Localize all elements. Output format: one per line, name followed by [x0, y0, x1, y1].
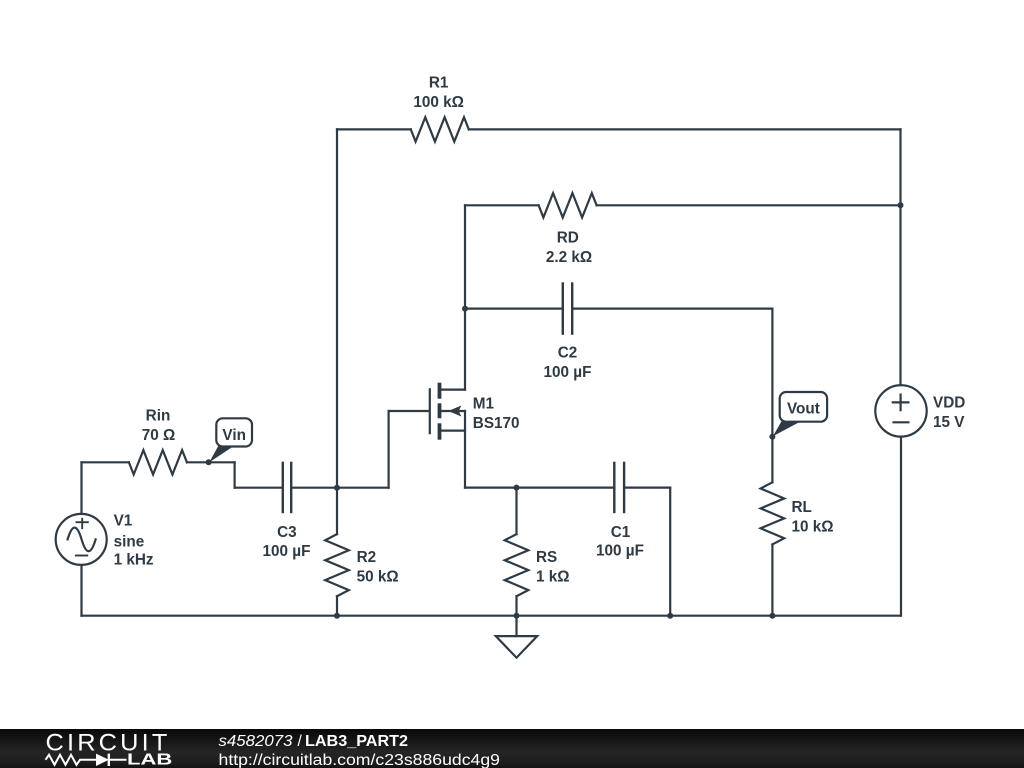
- svg-text:VDD: VDD: [933, 395, 965, 412]
- VDD plus sign: [892, 394, 910, 412]
- svg-text:1 kHz: 1 kHz: [114, 552, 154, 569]
- svg-text:RS: RS: [536, 549, 557, 566]
- wire C1 right lead: [625, 487, 670, 489]
- svg-text:15 V: 15 V: [933, 414, 965, 431]
- wire RD node to VDD plus terminal: [899, 205, 901, 385]
- svg-text:100 µF: 100 µF: [263, 543, 311, 560]
- svg-text:R1: R1: [429, 75, 449, 92]
- node RL-bottom junction dot: [769, 613, 775, 619]
- wire RD right lead: [597, 204, 901, 206]
- footer bar: [0, 729, 1024, 768]
- svg-text:Rin: Rin: [146, 408, 171, 425]
- svg-text:V1: V1: [114, 512, 133, 529]
- svg-text:LAB: LAB: [127, 752, 172, 768]
- node Vout junction dot: [769, 434, 775, 440]
- wire input horizontal to Rin: [82, 461, 129, 463]
- transistor M1 source lead: [441, 430, 465, 432]
- svg-text:BS170: BS170: [473, 415, 520, 432]
- svg-text:100 µF: 100 µF: [596, 543, 644, 560]
- logo diode lead: [109, 759, 127, 761]
- transistor M1 gate bar: [429, 388, 431, 434]
- svg-text:R2: R2: [357, 549, 377, 566]
- wire RS top lead: [515, 488, 517, 534]
- node ground junction dot: [514, 613, 520, 619]
- voltage source V1 circle: [56, 514, 107, 565]
- node R2-bottom junction dot: [334, 613, 340, 619]
- wire bottom rail: [82, 615, 901, 617]
- capacitor C1: [614, 462, 624, 514]
- node C1-bottom junction dot: [667, 613, 673, 619]
- wire left vertical (R1 left to input node): [336, 129, 338, 487]
- svg-text:50 kΩ: 50 kΩ: [357, 569, 399, 586]
- wire C1 left lead: [517, 487, 614, 489]
- resistor RS: [505, 534, 529, 596]
- svg-text:100 µF: 100 µF: [544, 364, 592, 381]
- resistor R1: [411, 117, 469, 141]
- transistor M1 drain lead: [441, 389, 465, 391]
- ground triangle: [496, 636, 537, 658]
- wire R2 top lead: [336, 488, 338, 534]
- node input junction dot: [334, 485, 340, 491]
- wire VDD bottom lead: [900, 437, 902, 616]
- flag Vin box: [216, 418, 252, 446]
- wire Rin right lead to Vin node: [187, 461, 235, 463]
- svg-text:Vin: Vin: [222, 427, 246, 444]
- wire Vin node down-step: [234, 462, 236, 487]
- wire top rail right segment: [469, 128, 901, 130]
- wire C2 right lead: [573, 308, 772, 310]
- ground stem: [515, 616, 517, 636]
- svg-text:C1: C1: [611, 524, 631, 541]
- wire step to C3: [235, 487, 282, 489]
- wire gate riser vertical: [388, 411, 390, 488]
- resistor RL: [761, 482, 785, 544]
- wire R2 bottom lead: [336, 596, 338, 615]
- logo diode bar: [108, 754, 110, 766]
- wire C2 left lead: [465, 308, 562, 310]
- logo resistor glyph: [46, 755, 97, 765]
- wire RS bottom lead: [515, 596, 517, 615]
- svg-text:70 Ω: 70 Ω: [142, 427, 176, 444]
- node RD-VDD junction dot: [898, 202, 904, 208]
- resistor R2: [325, 534, 349, 596]
- svg-text:sine: sine: [114, 533, 145, 550]
- VDD minus sign: [892, 421, 909, 423]
- node source junction dot: [514, 485, 520, 491]
- svg-text:2.2 kΩ: 2.2 kΩ: [546, 249, 592, 266]
- svg-text:M1: M1: [473, 395, 495, 412]
- V1 plus sign: [76, 518, 89, 529]
- transistor M1 body lead: [441, 410, 465, 412]
- flag Vout pointer tail: [773, 421, 800, 437]
- wire RL top lead: [771, 437, 773, 483]
- flag Vout box: [780, 392, 827, 422]
- svg-text:RL: RL: [792, 499, 812, 516]
- wire right vertical (top rail to RD node): [899, 129, 901, 205]
- transistor M1 body arrow: [448, 406, 461, 417]
- logo diode glyph: [96, 754, 109, 766]
- flag Vin pointer tail: [209, 446, 233, 463]
- wire V1 top lead: [80, 462, 82, 513]
- svg-text:s4582073: s4582073: [219, 733, 293, 750]
- svg-text:http://circuitlab.com/c23s886u: http://circuitlab.com/c23s886udc4g9: [219, 752, 501, 768]
- node Vin junction dot: [206, 459, 212, 465]
- svg-text:10 kΩ: 10 kΩ: [792, 519, 834, 536]
- svg-text:100 kΩ: 100 kΩ: [413, 94, 464, 111]
- transistor M1 channel segments: [438, 383, 442, 440]
- V1 sine wave: [68, 528, 96, 552]
- resistor Rin: [129, 450, 187, 474]
- svg-text:RD: RD: [557, 230, 579, 247]
- capacitor C2: [563, 282, 572, 335]
- wire C1 drop vertical: [669, 488, 671, 616]
- svg-text:Vout: Vout: [787, 401, 820, 418]
- voltage source VDD circle: [875, 385, 926, 436]
- wire drain vertical (RD lead to M1 drain): [464, 205, 466, 389]
- svg-text:C2: C2: [558, 345, 578, 362]
- wire input node to gate riser: [337, 487, 389, 489]
- node drain-C2 junction dot: [462, 306, 468, 312]
- svg-text:C3: C3: [277, 524, 297, 541]
- capacitor C3: [283, 462, 291, 514]
- svg-text:1 kΩ: 1 kΩ: [536, 569, 570, 586]
- wire V1 bottom lead: [80, 565, 82, 616]
- svg-text:/: /: [298, 733, 303, 750]
- wire output vertical (C2 to Vout node): [771, 309, 773, 437]
- wire RD left lead: [465, 204, 539, 206]
- wire source node horizontal: [465, 487, 517, 489]
- resistor RD: [539, 193, 597, 217]
- wire RL bottom lead: [771, 544, 773, 615]
- V1 minus sign: [75, 555, 88, 557]
- wire C3 right lead: [292, 487, 337, 489]
- wire M1 body-source vertical: [464, 411, 466, 488]
- svg-text:LAB3_PART2: LAB3_PART2: [305, 733, 408, 750]
- wire top rail left segment: [337, 128, 411, 130]
- wire gate lead: [389, 410, 429, 412]
